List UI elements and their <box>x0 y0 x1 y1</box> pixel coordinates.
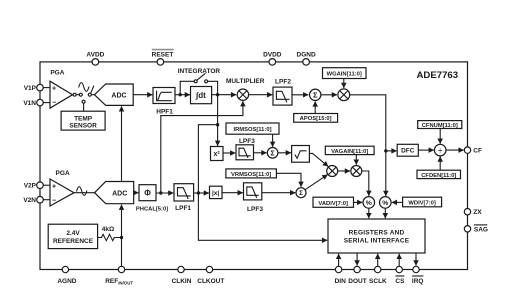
svg-text:Σ: Σ <box>270 150 274 157</box>
svg-text:−: − <box>52 100 56 107</box>
divider circle CF <box>434 144 446 156</box>
wire IRMSOS to summer <box>272 134 274 147</box>
svg-text:|x|: |x| <box>212 190 219 197</box>
wire reference to REF pin <box>121 238 123 267</box>
svg-text:V1N: V1N <box>23 100 36 107</box>
wire LPF1 to absolute value <box>194 192 209 194</box>
switch blade of integrator bypass <box>197 73 206 80</box>
svg-text:V1P: V1P <box>24 85 37 92</box>
svg-text:V2N: V2N <box>23 197 36 204</box>
svg-text:Σ: Σ <box>299 190 303 197</box>
ADC U1 channel 1 <box>95 84 134 105</box>
wire ADC2 to phase calibration <box>134 192 139 194</box>
wire LPF2 to summer <box>292 94 308 96</box>
pin SCLK <box>369 266 387 285</box>
register VAGAIN[11:0] <box>325 146 374 155</box>
divider VADIV percent <box>363 197 375 209</box>
node junction after LPF1 <box>197 191 200 194</box>
svg-text:CS: CS <box>395 278 405 285</box>
node junction after PHCAL <box>159 191 162 194</box>
wire PHCAL to LPF1 <box>156 192 173 194</box>
integrator block U2 <box>191 87 212 104</box>
svg-text:SCLK: SCLK <box>369 278 387 285</box>
IC outline ADE7763 <box>40 62 468 270</box>
multiplier VAGAIN mixer <box>351 166 362 177</box>
block x squared <box>211 147 224 161</box>
node PGA1 output contact <box>73 93 76 96</box>
wire registers to IRQ <box>415 253 417 266</box>
svg-text:CFDEN[11:0]: CFDEN[11:0] <box>421 173 456 179</box>
summer with IRMSOS offset <box>267 148 278 159</box>
register IRMSOS[11:0] <box>226 123 279 134</box>
wire integrator bypass right <box>208 81 218 94</box>
register CFNUM[11:0] <box>418 121 462 129</box>
wire square root to VA multiplier <box>309 153 328 166</box>
svg-text:VRMSOS[11:0]: VRMSOS[11:0] <box>231 172 271 178</box>
wire reference to ADC2 <box>121 205 123 238</box>
wire VAGAIN to mixer <box>355 155 357 165</box>
svg-text:DFC: DFC <box>401 148 415 155</box>
svg-text:PHCAL[5:0]: PHCAL[5:0] <box>136 207 168 213</box>
wire VADIV to percent <box>354 201 363 203</box>
divider WDIV percent <box>380 197 392 209</box>
node junction before integrator <box>179 93 182 96</box>
wire absolute value to LPF3b <box>222 192 243 194</box>
register APOS[15:0] <box>294 114 338 123</box>
block square root <box>292 146 310 163</box>
svg-text:IRMSOS[11:0]: IRMSOS[11:0] <box>233 127 271 133</box>
block PHCAL phase calibration <box>139 185 156 201</box>
wire integrator bypass left <box>180 81 194 94</box>
svg-text:LPF1: LPF1 <box>175 205 191 212</box>
register CFDEN[11:0] <box>417 170 461 179</box>
svg-text:MULTIPLIER: MULTIPLIER <box>226 78 265 85</box>
svg-text:SERIAL INTERFACE: SERIAL INTERFACE <box>344 238 410 245</box>
wire reference to ADC1 <box>121 106 123 181</box>
svg-text:SAG: SAG <box>474 227 488 234</box>
pin CF <box>464 147 482 154</box>
pin V2P <box>24 182 44 190</box>
wire PGA1 output to mux contact <box>76 94 79 96</box>
ADC U4 channel 2 <box>95 182 134 204</box>
resistor 4k ohm <box>98 234 122 240</box>
waveform squiggle channel 1 <box>79 83 89 92</box>
node mux contact left <box>79 93 82 96</box>
summer with APOS offset <box>310 89 321 100</box>
svg-text:Φ: Φ <box>144 189 151 198</box>
pin DVDD <box>263 51 282 65</box>
waveform squiggle channel 2 <box>77 187 87 196</box>
svg-text:∫dt: ∫dt <box>195 91 206 100</box>
svg-text:+: + <box>52 86 56 93</box>
svg-text:ADC: ADC <box>112 191 127 198</box>
svg-text:LPF3: LPF3 <box>239 138 255 145</box>
svg-text:CLKIN: CLKIN <box>172 278 192 285</box>
wire V1P to PGA1 <box>43 87 50 89</box>
svg-text:VADIV[7:0]: VADIV[7:0] <box>318 201 348 207</box>
svg-text:HPF1: HPF1 <box>156 108 173 115</box>
wire VRMSOS to summer <box>276 173 301 187</box>
wire CFDEN to divider <box>439 157 441 171</box>
pin V1P <box>24 84 44 92</box>
node junction channel1 sample <box>216 123 219 126</box>
svg-text:x²: x² <box>213 151 220 158</box>
wire channel1 sample down <box>217 95 219 125</box>
svg-text:REFERENCE: REFERENCE <box>53 238 94 245</box>
wire VADIV percent to registers <box>368 208 370 218</box>
svg-text:WGAIN[11:0]: WGAIN[11:0] <box>327 71 362 77</box>
pin RESET (active low) <box>152 50 174 66</box>
svg-text:IRQ: IRQ <box>412 278 424 285</box>
svg-text:ZX: ZX <box>473 209 482 216</box>
svg-text:LPF2: LPF2 <box>275 79 291 86</box>
multiplier VA mixer <box>327 166 338 177</box>
pin DIN <box>335 266 347 285</box>
wire V2P to PGA2 <box>43 184 50 186</box>
svg-text:LPF3: LPF3 <box>247 206 263 213</box>
svg-text:Σ: Σ <box>313 91 318 100</box>
wire WDIV to percent <box>392 201 403 203</box>
wire PGA2 to ADC2 <box>74 192 96 194</box>
node bypass switch contact right <box>205 80 208 83</box>
register WGAIN[11:0] <box>323 68 367 79</box>
svg-text:%: % <box>366 200 372 207</box>
svg-text:TEMP: TEMP <box>74 116 93 123</box>
voltage reference block 2.4V <box>48 224 97 248</box>
node mux contact right <box>88 93 91 96</box>
svg-text:ADE7763: ADE7763 <box>416 70 458 81</box>
svg-text:INTEGRATOR: INTEGRATOR <box>178 68 221 75</box>
svg-text:+: + <box>52 183 56 190</box>
svg-text:DGND: DGND <box>297 51 316 58</box>
svg-text:CLKOUT: CLKOUT <box>197 278 224 285</box>
registers and serial interface block <box>328 219 425 253</box>
svg-text:APOS[15:0]: APOS[15:0] <box>300 116 332 122</box>
block DFC <box>397 144 418 156</box>
wire junction to DFC <box>386 150 397 152</box>
svg-text:CF: CF <box>473 147 482 154</box>
wire summer to WGAIN multiplier <box>321 94 337 96</box>
pin V2N <box>23 196 43 204</box>
wire channel2 to multiplier riser <box>161 101 243 193</box>
wire temp sensor to mux <box>83 103 85 111</box>
wire summer to square root <box>278 152 291 154</box>
wire HPF1 to integrator <box>175 94 190 96</box>
pin V1N <box>23 99 43 107</box>
op-amp PGA1 <box>50 81 73 108</box>
wire integrator to multiplier <box>212 94 237 96</box>
wire LPF3a to summer <box>254 152 267 154</box>
op-amp PGA2 <box>50 179 74 206</box>
filter LPF3 current rms <box>236 145 254 160</box>
multiplier WGAIN mixer <box>338 89 350 101</box>
switch blade of channel 1 mux <box>91 86 94 94</box>
pin IRQ (active low) <box>412 266 424 285</box>
pin AVDD <box>86 51 104 65</box>
pin REF IN/OUT <box>105 266 133 285</box>
node junction reference <box>120 236 123 239</box>
pin CLKIN <box>172 266 192 285</box>
pin AGND <box>57 266 76 285</box>
node temp sensor contact <box>82 100 85 103</box>
svg-text:DOUT: DOUT <box>348 278 366 285</box>
svg-text:%: % <box>382 200 388 207</box>
wire CS to registers <box>398 254 400 266</box>
temp sensor block <box>61 111 105 130</box>
wire WGAIN to multiplier <box>343 79 345 89</box>
wire WDIV percent to registers <box>384 208 386 218</box>
svg-text:PGA: PGA <box>56 170 70 177</box>
pin CLKOUT <box>197 266 224 285</box>
wire VAGAIN mixer to VADIV divider <box>362 171 369 196</box>
register VRMSOS[11:0] <box>226 169 277 178</box>
pin ZX <box>464 209 482 217</box>
svg-text:RESET: RESET <box>152 51 174 58</box>
wire divider to CF pin <box>446 149 464 151</box>
svg-text:AGND: AGND <box>57 278 76 285</box>
wire waveform samples to registers <box>198 125 327 241</box>
summer with VRMSOS offset <box>296 188 306 198</box>
svg-text:CFNUM[11:0]: CFNUM[11:0] <box>422 123 458 129</box>
svg-text:DIN: DIN <box>335 278 347 285</box>
wire junction to x squared <box>217 125 219 146</box>
wire registers to DOUT <box>356 253 358 266</box>
svg-text:VAGAIN[11:0]: VAGAIN[11:0] <box>331 149 368 155</box>
pin CS (active low) <box>395 266 405 285</box>
svg-text:PGA: PGA <box>50 70 64 77</box>
wire ADC1 to HPF1 <box>133 94 152 96</box>
wire summer to VA multiplier <box>305 175 328 190</box>
node junction after integrator <box>216 93 219 96</box>
register WDIV[7:0] <box>403 197 442 207</box>
wire DIN to registers <box>338 254 340 266</box>
wire multiplier to LPF2 <box>249 94 273 96</box>
node junction active energy to DFC <box>384 149 387 152</box>
pin DOUT <box>348 266 366 285</box>
wire x squared to LPF3a <box>223 152 235 154</box>
wire CFNUM to divider <box>439 129 441 144</box>
svg-text:ADC: ADC <box>111 93 126 100</box>
svg-text:4kΩ: 4kΩ <box>102 226 114 233</box>
register VADIV[7:0] <box>313 197 354 207</box>
wire LPF3b to summer <box>262 192 296 194</box>
wire active energy to divider chain <box>350 95 386 196</box>
filter LPF2 <box>273 87 292 105</box>
svg-text:WDIV[7:0]: WDIV[7:0] <box>408 201 435 207</box>
svg-text:REGISTERS AND: REGISTERS AND <box>349 230 405 237</box>
wire V1N to PGA1 <box>43 102 50 104</box>
node bypass switch contact left <box>194 80 197 83</box>
svg-text:−: − <box>52 197 56 204</box>
filter LPF3 voltage rms <box>244 183 262 200</box>
svg-text:2.4V: 2.4V <box>66 230 80 237</box>
svg-text:DVDD: DVDD <box>263 51 282 58</box>
multiplier mixer channel1 x channel2 <box>237 89 248 100</box>
wire mux to ADC1 <box>91 94 95 96</box>
filter LPF1 <box>174 184 194 201</box>
wire APOS to summer <box>314 101 316 113</box>
svg-text:SENSOR: SENSOR <box>69 123 97 130</box>
svg-text:AVDD: AVDD <box>86 51 104 58</box>
filter HPF1 <box>153 88 175 104</box>
wire V2N to PGA2 <box>43 199 50 201</box>
block absolute value <box>210 186 223 198</box>
svg-text:÷: ÷ <box>438 146 442 155</box>
wire DFC to CF divider <box>418 149 434 151</box>
svg-text:V2P: V2P <box>24 183 37 190</box>
svg-text:REFIN/OUT: REFIN/OUT <box>105 278 133 286</box>
wire VA mixer to VAGAIN mixer <box>338 170 350 172</box>
wire SCLK to registers <box>377 254 379 266</box>
pin SAG (active low) <box>464 225 488 234</box>
pin DGND <box>297 51 316 65</box>
